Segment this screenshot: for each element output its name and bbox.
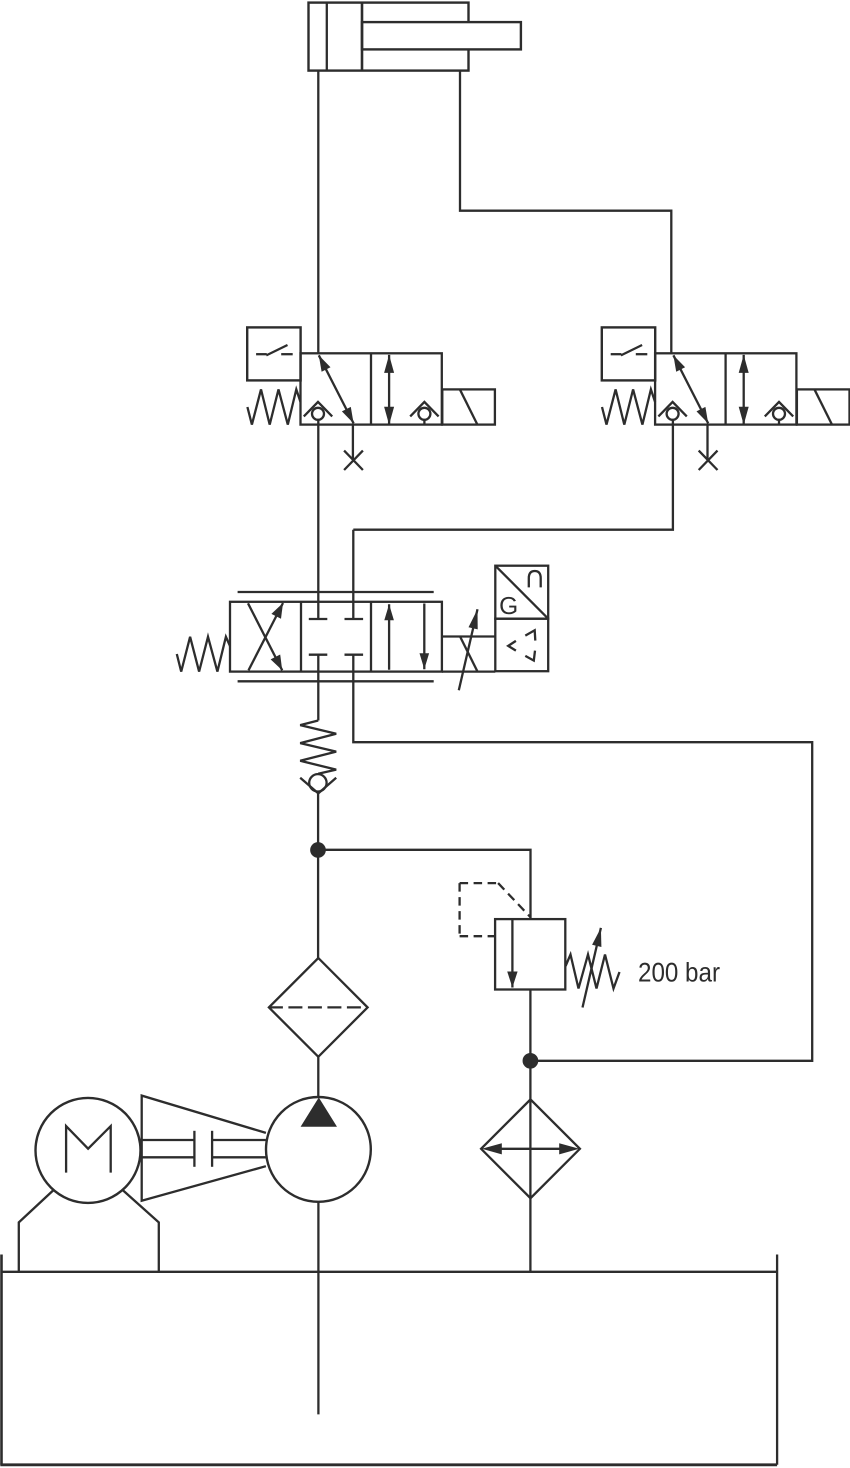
motor M1 circle	[36, 1098, 141, 1203]
wire cap-side port down to valve V1	[317, 71, 319, 354]
position 2 vertical flow arrow	[388, 355, 390, 425]
wire node A to relief valve RV1	[318, 850, 531, 919]
valve U1 proportional overline top	[238, 591, 434, 593]
position 2 vertical flow arrow	[743, 355, 745, 425]
cylinder C1 piston	[361, 3, 364, 71]
pump P1 flow triangle	[302, 1098, 337, 1126]
relief valve RV1 spring	[566, 955, 620, 989]
cylinder C1 body	[309, 3, 469, 71]
wire RV1 outlet to node B	[529, 990, 531, 1061]
filter F1 element dashed	[269, 1006, 368, 1008]
position 1 diagonal flow arrow	[319, 355, 354, 423]
plug X	[699, 451, 718, 470]
motor M1 letter M	[66, 1126, 111, 1173]
tank right wall	[776, 1255, 778, 1465]
solenoid box	[797, 389, 850, 424]
coupling bell housing	[142, 1096, 266, 1201]
limit switch box	[247, 327, 300, 380]
relief valve RV1 flow arrow	[511, 919, 513, 987]
wire pump P1 suction into tank	[317, 1202, 319, 1415]
wire U1 to check valve	[317, 655, 319, 721]
wire check valve to node A	[317, 793, 319, 850]
valve U1 proportional adjust arrow	[459, 609, 478, 690]
valve U1 electronics lower box with control loop marks	[495, 619, 548, 672]
wire node B to cooler F2 and tank	[529, 1061, 531, 1272]
valve return spring	[602, 389, 655, 424]
check valve ball	[309, 774, 326, 791]
cylinder C1 piston rod	[362, 22, 521, 49]
wire filter F1 to pump P1	[317, 1057, 319, 1097]
check valve spring	[300, 721, 336, 774]
wire V1 to center position of valve U1	[317, 420, 319, 619]
solenoid box	[442, 389, 495, 424]
plug X	[344, 451, 363, 470]
wire rod-side port to valve V2	[460, 71, 671, 354]
plugged port line	[352, 425, 354, 460]
position 2 check seat	[765, 402, 793, 425]
relief valve RV1 adjustment arrow	[583, 928, 601, 1008]
valve U1 electronics box with amplifier G	[495, 566, 548, 621]
pump P1 circle	[266, 1097, 371, 1202]
valve U1 return spring	[177, 637, 230, 672]
valve U1 proportional underline bottom	[238, 680, 434, 682]
cooler F2 diamond	[481, 1099, 580, 1198]
filter F1 diamond	[269, 958, 368, 1057]
valve body 2 positions	[655, 353, 796, 424]
valve U1 left position crossed arrows	[248, 603, 283, 670]
limit switch box	[602, 327, 655, 380]
motor mount legs	[19, 1190, 159, 1272]
valve U1 body 3 positions	[230, 602, 442, 672]
position 1 check seat	[304, 402, 332, 420]
relief valve RV1 body	[495, 919, 565, 989]
tank base line	[1, 1271, 777, 1273]
wire into valve U1 top	[352, 530, 354, 619]
svg-text:G: G	[499, 593, 518, 620]
wire V2 down and left	[353, 420, 673, 530]
valve U1 proportional solenoid box	[442, 637, 495, 672]
position 1 check seat	[658, 402, 686, 420]
valve U1 right position straight arrows	[384, 604, 429, 670]
node A junction dot	[311, 843, 324, 856]
wire node A down to filter	[317, 850, 319, 958]
cooler F2 double arrow	[482, 1143, 579, 1154]
tank bottom	[0, 1463, 777, 1466]
valve U1 center position blocked ports	[309, 619, 363, 655]
position 1 diagonal flow arrow	[673, 355, 708, 423]
svg-text:200 bar: 200 bar	[638, 958, 720, 988]
position 2 check seat	[410, 402, 438, 425]
node B junction dot	[524, 1054, 537, 1067]
relief valve RV1 pilot dashed line	[460, 883, 531, 936]
valve return spring	[247, 389, 300, 424]
valve body 2 positions	[301, 353, 442, 424]
check valve seat	[300, 778, 336, 794]
coupling bars	[194, 1131, 212, 1167]
plugged port line	[706, 425, 708, 460]
tank left wall	[0, 1255, 3, 1465]
coupling shaft pump side	[212, 1140, 266, 1157]
tank return wire from valve U1	[353, 655, 812, 1061]
coupling shaft motor side	[141, 1140, 195, 1157]
